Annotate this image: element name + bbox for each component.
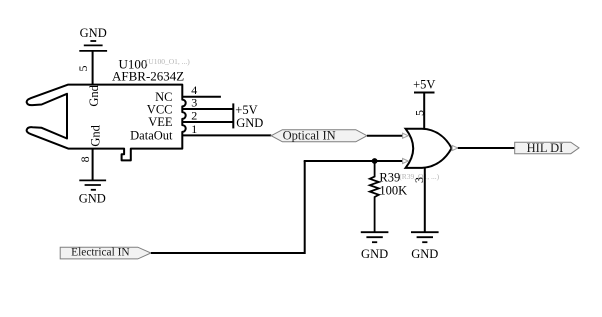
ground GND bottom-left (79, 180, 106, 189)
svg-text:GND: GND (361, 247, 388, 261)
svg-text:8: 8 (78, 156, 92, 162)
power port +5V (gate) (414, 92, 435, 94)
port HIL DI (515, 142, 579, 154)
svg-text:5: 5 (412, 110, 426, 116)
or-gate body (406, 129, 452, 168)
svg-text:GND: GND (80, 26, 107, 40)
svg-text:5: 5 (76, 66, 90, 72)
wire gate output (458, 147, 515, 149)
wire pin 5 to ground (92, 51, 94, 85)
svg-text:GND: GND (79, 192, 106, 206)
svg-text:3: 3 (412, 177, 426, 183)
svg-text:+5V: +5V (413, 78, 435, 92)
svg-text:DataOut: DataOut (130, 129, 173, 143)
svg-text:1: 1 (191, 122, 197, 136)
resistor R39 (370, 161, 379, 232)
svg-text:(U100_O1, ...): (U100_O1, ...) (146, 57, 190, 66)
gate output arrow (452, 146, 458, 151)
svg-text:Electrical IN: Electrical IN (71, 247, 130, 259)
pin 4 wire (NC) (182, 96, 221, 98)
svg-text:GND: GND (411, 247, 438, 261)
port Optical IN (271, 130, 367, 142)
optical receiver U100 body (27, 85, 186, 161)
gate input arrow A (403, 133, 409, 138)
wire to gate input B (304, 160, 403, 162)
port Electrical IN (60, 247, 151, 259)
svg-text:Gnd: Gnd (87, 84, 101, 106)
wire gate ground pin 3 (424, 167, 426, 232)
ground GND (R39) (361, 232, 389, 242)
svg-text:Gnd: Gnd (89, 124, 103, 146)
wire gate power pin 5 (423, 93, 425, 130)
svg-text:3: 3 (191, 95, 197, 109)
pin 1 wire (DataOut) (182, 134, 271, 136)
pin 3 wire (VCC) (182, 108, 233, 110)
svg-text:Optical IN: Optical IN (283, 129, 336, 143)
ground GND (gate) (411, 232, 439, 242)
wire Electrical IN vertical (304, 161, 306, 254)
pin 2 wire (VEE) (182, 121, 233, 123)
svg-text:HIL DI: HIL DI (527, 141, 564, 155)
svg-text:GND: GND (236, 116, 263, 130)
svg-text:2: 2 (191, 108, 197, 122)
junction node (372, 158, 378, 164)
power port +5V (pin 3) bar (232, 103, 234, 116)
wire Electrical IN horizontal (151, 252, 305, 254)
svg-text:100K: 100K (379, 184, 407, 198)
svg-text:AFBR-2634Z: AFBR-2634Z (112, 69, 184, 84)
svg-text:R39: R39 (379, 170, 400, 184)
ground GND top-left (flipped, above pin 5) (79, 41, 107, 51)
wire Optical IN to gate input A (367, 135, 403, 137)
wire pin 8 to ground (92, 149, 94, 181)
power port GND (pin 2) bar (232, 116, 234, 128)
gate input arrow B (403, 159, 409, 164)
svg-text:VEE: VEE (148, 115, 173, 129)
